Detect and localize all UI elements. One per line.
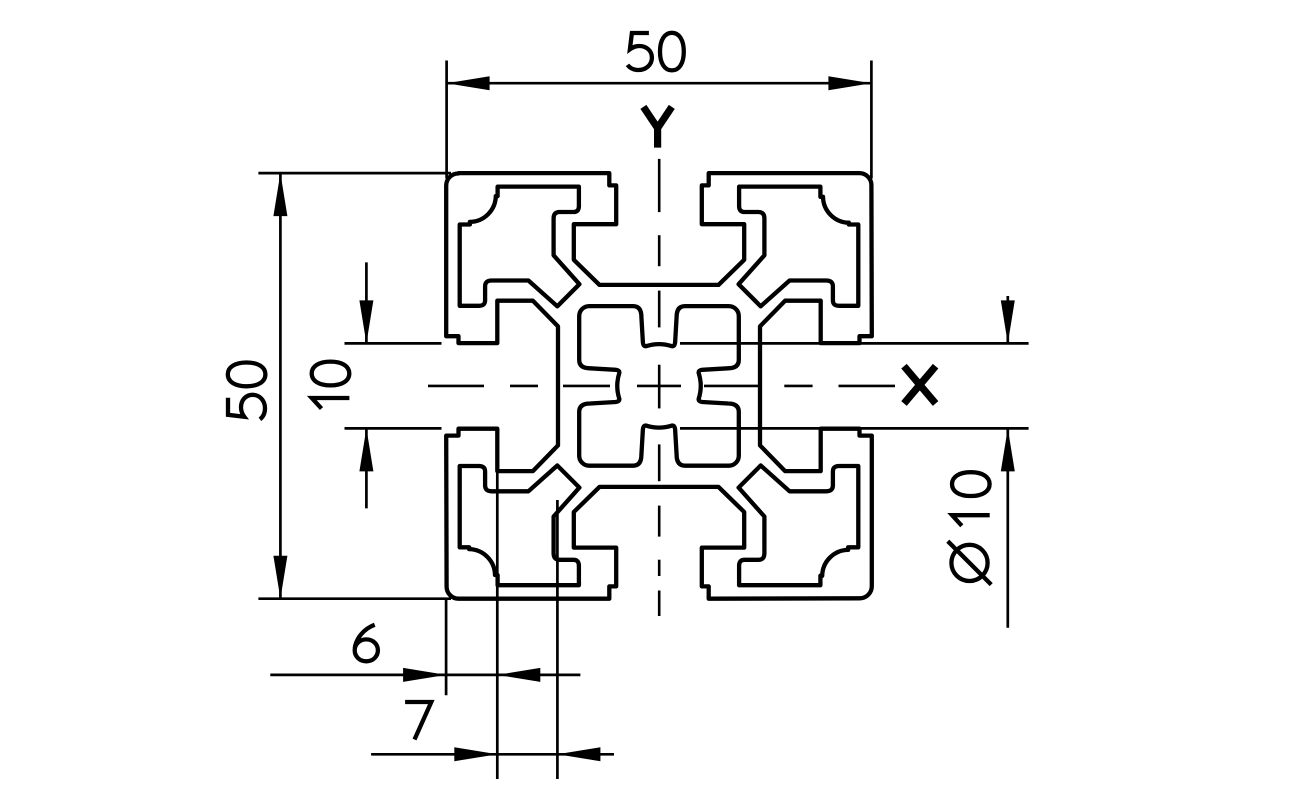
dimension 7: extension line xyxy=(371,500,614,779)
dimension 7: dimension line xyxy=(371,753,614,756)
dimension 6: arrowheads xyxy=(403,668,446,682)
dimension 10 slot: dimension line with tails xyxy=(365,262,368,343)
dimension 50 left: arrowheads xyxy=(273,173,287,216)
dimension 6: dimension line xyxy=(270,674,580,677)
corner cavity top-right xyxy=(739,187,859,307)
dimension 50 left: extension lines xyxy=(258,173,451,599)
dimension text Ø10 (rotated) xyxy=(948,472,991,584)
dimension 7: arrowheads xyxy=(454,747,497,761)
central screw channel with bore Ø10 xyxy=(579,306,739,466)
dimension text 6 xyxy=(355,625,378,662)
outer profile contour with T-slot openings xyxy=(446,173,872,599)
corner cavity top-left xyxy=(460,187,580,307)
dimension 50 top: extension lines xyxy=(447,61,872,179)
dimension 50 top: dimension line xyxy=(447,82,872,85)
vertical centerline Y axis xyxy=(658,159,661,616)
dimension 6: extension lines xyxy=(270,466,580,779)
dimension 10 slot: extension lines xyxy=(345,262,442,508)
axis label X xyxy=(904,366,936,403)
dimension text 50 left (rotated) xyxy=(228,363,266,420)
dimension 50 left: dimension line xyxy=(279,173,282,599)
dimension text 10 (rotated) xyxy=(312,362,350,409)
dimension Ø10 bore: extension lines xyxy=(680,296,1029,628)
dimension 50 top: arrowheads xyxy=(447,76,490,90)
corner cavity bottom-right xyxy=(739,466,859,586)
dimension 10 slot: arrowheads xyxy=(359,300,373,343)
dimension Ø10 bore: dimension line with tails xyxy=(1006,296,1009,343)
axis label Y xyxy=(643,107,671,148)
dimension text 7 xyxy=(405,702,431,740)
dimension Ø10 bore: arrowheads xyxy=(1001,300,1015,343)
corner cavity bottom-left xyxy=(460,465,580,585)
dimension text 50 top xyxy=(628,33,684,71)
horizontal centerline X axis xyxy=(428,385,895,388)
